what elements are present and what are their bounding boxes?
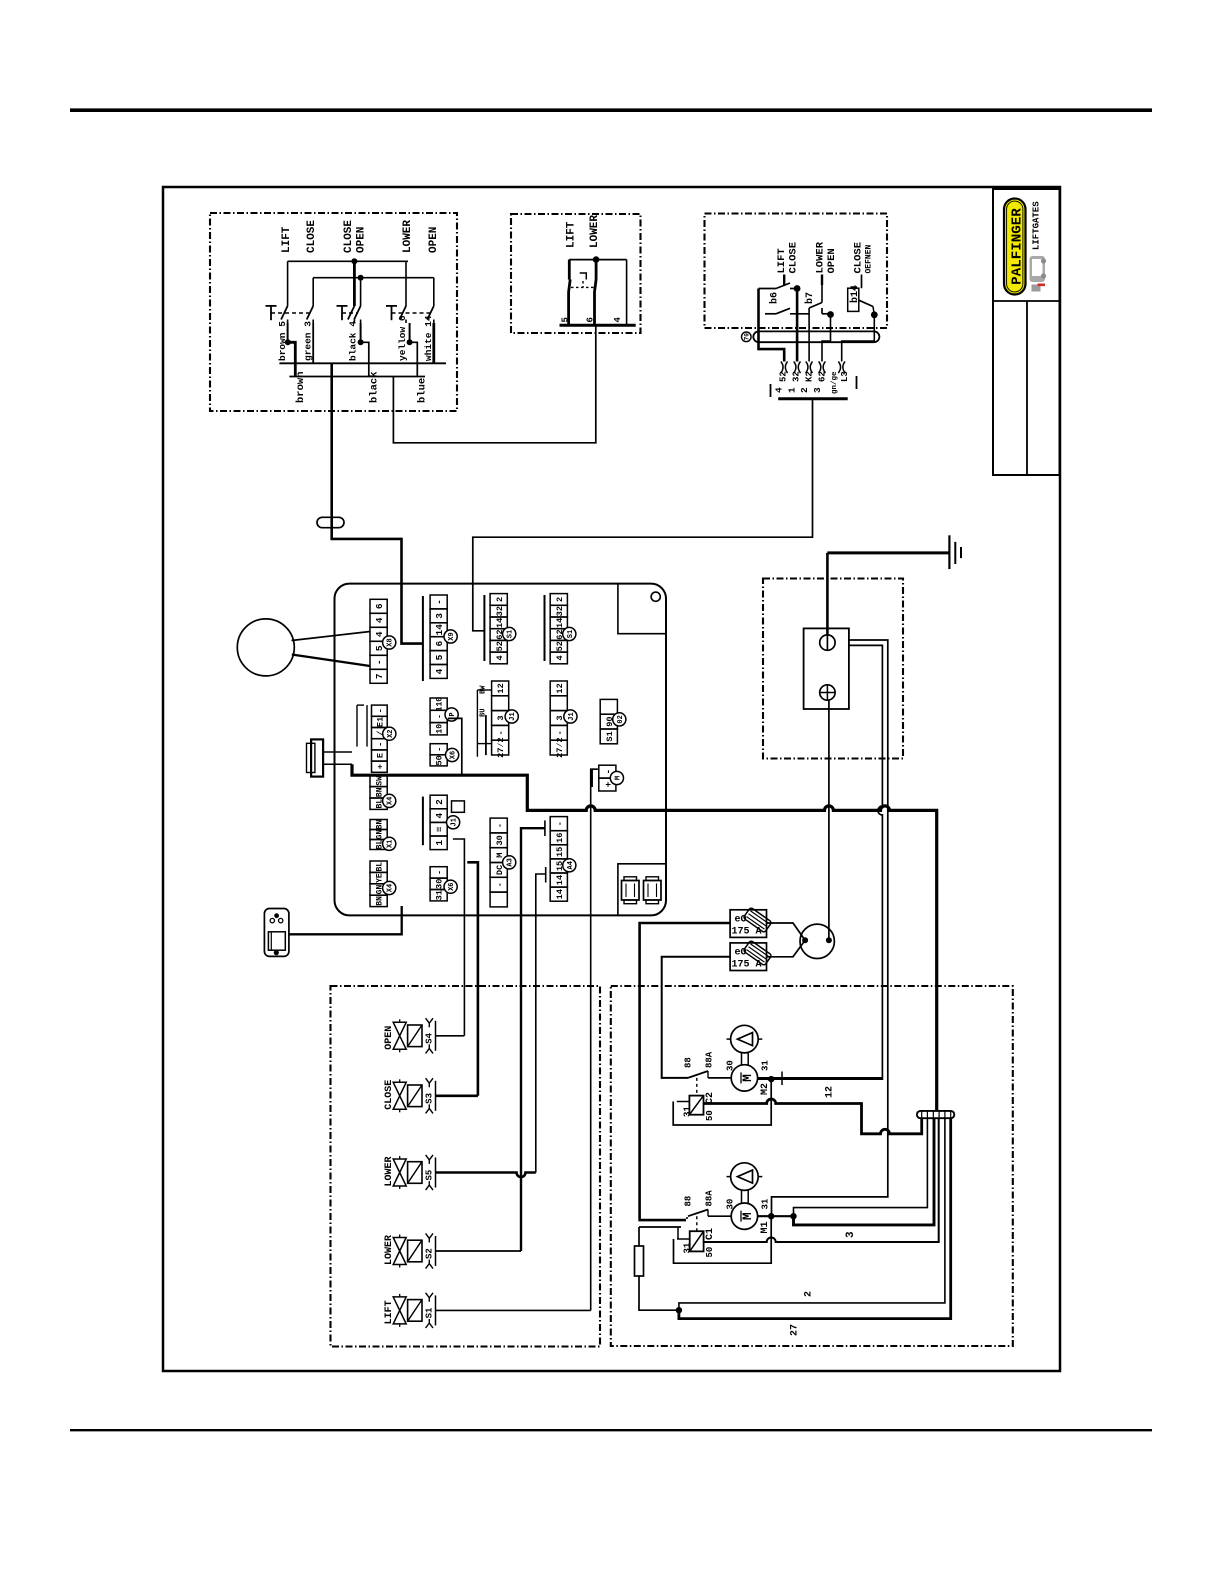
svg-text:1: 1 (786, 387, 797, 393)
wire 2 (679, 1118, 945, 1310)
bracket at block M (591, 768, 593, 787)
enclosure: pump unit (dash-dot box) (611, 986, 1013, 1346)
wire: S5 to controller (436, 1173, 536, 1178)
svg-text:1: 1 (434, 840, 445, 846)
page bottom rule (70, 1429, 1152, 1431)
svg-text:X8: X8 (387, 638, 395, 646)
svg-text:14: 14 (555, 889, 565, 899)
svg-text:OPEN: OPEN (356, 227, 368, 253)
svg-text:M: M (740, 1074, 755, 1082)
svg-text:32: 32 (792, 371, 802, 382)
svg-text:X4: X4 (387, 884, 395, 892)
node: bottom distribution (676, 1307, 682, 1313)
solenoid valve S1 (LIFT) (384, 1293, 435, 1328)
svg-text:30: 30 (435, 879, 445, 889)
wire: fuse F1 to stud (767, 923, 806, 940)
switch b6 upper contact (759, 288, 777, 290)
enclosure: hand control pendant (dash-dot box) (210, 213, 457, 411)
node: b14 junction (871, 311, 878, 318)
switch b6 stub (783, 275, 785, 286)
wire: contact tails to lower bus (287, 323, 289, 342)
terminal block S1b (4 52 62 14 32 2) (550, 594, 567, 606)
switch 88 contact (M2) (688, 1071, 708, 1078)
aux box at J11 (452, 801, 465, 812)
inline fuse on feed (635, 1246, 644, 1276)
svg-text:30: 30 (726, 1060, 736, 1071)
wire: S2 to controller (436, 1250, 522, 1252)
svg-text:-: - (555, 730, 565, 735)
enclosure: cab switch panel (dash-dot box) (705, 214, 888, 329)
chassis ground symbol (948, 535, 950, 569)
controller board corner notch top-right (618, 584, 666, 634)
svg-text:6: 6 (374, 603, 385, 609)
svg-text:2: 2 (804, 1291, 815, 1297)
svg-text:LIFT: LIFT (776, 248, 788, 273)
svg-text:30: 30 (726, 1199, 736, 1210)
wire: cab panel output to controller (473, 399, 813, 584)
wire: S2 riser (521, 828, 545, 1251)
svg-text:110: 110 (436, 697, 445, 712)
switch b14 blade (861, 275, 863, 289)
fan icon (274, 913, 279, 918)
svg-text:15: 15 (555, 847, 565, 857)
connector bar (cab harness) (753, 331, 879, 342)
svg-text:31: 31 (682, 1242, 692, 1253)
terminal block P (110-10) (430, 698, 447, 710)
svg-text:X6: X6 (450, 751, 458, 759)
node: pendant bus junction (351, 258, 357, 264)
svg-text:black: black (368, 371, 380, 403)
svg-text:BL: BL (376, 862, 385, 872)
terminal block X8 (7-5446) with buzzer wires (370, 599, 387, 613)
solenoid valve S3 (CLOSE) (384, 1078, 435, 1113)
fan unit body (264, 909, 289, 957)
wire: S3 riser (467, 862, 478, 1096)
svg-text:5: 5 (561, 317, 571, 322)
svg-text:4: 4 (374, 617, 385, 623)
node: pendant2 junction (593, 256, 600, 263)
terminal block A4 (14-15-16-) (550, 817, 567, 831)
starter junction stud (800, 924, 834, 958)
svg-text:12: 12 (555, 683, 565, 693)
node: pendant bus2 junction (358, 275, 364, 281)
svg-text:GN: GN (376, 830, 385, 840)
solenoid valve S4 (OPEN) (384, 1018, 435, 1053)
wire: pendant2 base bar (560, 324, 636, 327)
pump P2 and motor M2 (731, 1025, 759, 1053)
svg-text:52: 52 (495, 641, 505, 651)
svg-text:-: - (435, 870, 445, 875)
enclosure: battery (dash-dot box) (763, 579, 903, 759)
svg-text:J1: J1 (509, 712, 517, 720)
svg-text:32: 32 (495, 606, 505, 616)
svg-text:10: 10 (436, 724, 445, 734)
battery minus terminal (820, 635, 835, 650)
svg-text:2: 2 (434, 799, 445, 805)
bus and ticks at J1a (485, 715, 487, 755)
svg-text:14: 14 (555, 875, 565, 885)
wire: fuse F1 riser lower stub (639, 1226, 681, 1228)
svg-text:4: 4 (495, 655, 505, 660)
terminal block J11 (1=42) (430, 795, 447, 809)
wire: S4 to controller (436, 1035, 465, 1037)
wire: fuse F2 to stud (767, 940, 806, 957)
wire: pendant main feed to controller (332, 363, 402, 583)
svg-text:12: 12 (825, 1086, 836, 1098)
svg-text:BN: BN (376, 820, 385, 830)
logo PALFINGER yellow badge (1004, 199, 1026, 295)
fuse F2 175A (730, 943, 766, 971)
terminal block X6b (-3031) (430, 867, 447, 878)
switch b7 stub (821, 275, 823, 286)
terminal block X41 (wire colours) (370, 861, 387, 872)
svg-text:CLOSE: CLOSE (787, 242, 799, 274)
svg-text:88: 88 (684, 1196, 694, 1207)
svg-text:b7: b7 (804, 292, 816, 304)
svg-text:3: 3 (812, 387, 823, 393)
board power connector blocks (622, 881, 640, 901)
wire: S5 riser (536, 874, 546, 1173)
svg-text:-: - (436, 714, 445, 719)
svg-text:CLOSE: CLOSE (852, 242, 864, 274)
svg-text:BN: BN (376, 896, 385, 906)
wire: main ground bus on board (thick) (352, 764, 937, 1111)
node: b6 junction (794, 285, 801, 292)
nodes: M1 terminal 31 junctions (758, 1215, 794, 1217)
solenoid valve S5 (LOWER) (384, 1155, 435, 1190)
wire: C2 coil ground loop (673, 1079, 771, 1125)
svg-text:S2: S2 (425, 1248, 435, 1259)
svg-text:-: - (555, 821, 565, 826)
svg-text:M: M (495, 853, 505, 858)
svg-text:M2: M2 (760, 1083, 771, 1095)
wire: pendant top bus (288, 260, 408, 262)
terminal block X4 (wire colours) (370, 775, 387, 786)
svg-text:white 14: white 14 (423, 315, 434, 361)
svg-text:S1: S1 (507, 630, 515, 638)
svg-text:CLOSE: CLOSE (306, 220, 318, 253)
svg-text:70: 70 (744, 333, 751, 341)
svg-text:50: 50 (705, 1247, 715, 1258)
wire: pendant lower bus (279, 362, 446, 364)
switch actuator T-bar 3 (386, 305, 397, 307)
svg-text:-: - (374, 659, 385, 665)
svg-text:5: 5 (434, 654, 445, 660)
wire 3: C1-50 to harness (704, 1118, 939, 1242)
svg-text:PALFINGER: PALFINGER (1009, 208, 1025, 285)
fan grille (268, 932, 285, 950)
battery body (804, 628, 849, 709)
node: M2 terminal 31 (758, 1077, 883, 1079)
drawing frame border (163, 187, 1060, 1371)
svg-text:+: + (375, 764, 385, 769)
svg-text:A4: A4 (567, 861, 575, 869)
switch blades (two-button pendant) (569, 280, 571, 326)
wire: cab panel left feed (759, 289, 785, 362)
bus bar at X9 (422, 596, 424, 681)
svg-text:X9: X9 (448, 632, 456, 640)
bus bar at S1a (483, 595, 485, 661)
svg-text:black 4: black 4 (347, 321, 358, 361)
svg-text:02: 02 (617, 715, 625, 723)
wire: b7 junction to pin 62 (822, 315, 831, 362)
wire: S1 riser (591, 769, 597, 1310)
contactor C2 coil (689, 1096, 703, 1115)
switch contact blades (pendant) (281, 306, 288, 320)
svg-text:LIFT: LIFT (281, 226, 293, 253)
svg-text:gn/ge: gn/ge (831, 371, 839, 394)
switch actuator T-bar 1 (266, 305, 277, 307)
svg-text:M1: M1 (760, 1221, 771, 1233)
bus bar at J11 (422, 797, 424, 846)
svg-text:S1: S1 (567, 630, 575, 638)
wire: K2 pin rise (808, 308, 810, 362)
svg-text:S1: S1 (425, 1307, 435, 1318)
wire: buzzer to controller block (292, 632, 371, 641)
wire: block P to ground bus tap (448, 718, 462, 775)
wire: connector X1 to controller (323, 751, 352, 753)
buzzer (237, 619, 294, 676)
svg-text:LIFT: LIFT (565, 221, 577, 248)
svg-text:S5: S5 (425, 1170, 435, 1181)
svg-text:X4: X4 (387, 797, 395, 805)
bracket at X2 (356, 705, 358, 747)
svg-text:4: 4 (434, 812, 445, 818)
svg-text:3: 3 (845, 1231, 857, 1238)
battery plus terminal (820, 685, 835, 700)
svg-text:50: 50 (435, 755, 445, 765)
svg-text:32: 32 (555, 606, 565, 616)
harness bundle connector (917, 1111, 954, 1118)
svg-text:-: - (496, 730, 506, 735)
node: b7 junction (827, 311, 834, 318)
svg-text:14: 14 (555, 618, 565, 628)
svg-text:14: 14 (495, 618, 505, 628)
title block divider lines (993, 300, 1060, 302)
svg-text:OPEN: OPEN (826, 248, 838, 273)
svg-text:OEFNEN: OEFNEN (864, 244, 873, 273)
contactor C2 link (dashed) (696, 1078, 698, 1096)
enclosure: two-button pendant (dash-dot box) (511, 214, 641, 333)
svg-text:4: 4 (374, 631, 385, 637)
svg-text:-: - (495, 823, 505, 828)
svg-text:-: - (434, 599, 445, 605)
tick marks beside pins (770, 384, 772, 397)
svg-text:YE: YE (376, 873, 385, 883)
switch actuator T-bar 2 (337, 305, 348, 307)
wire: fuse F2 feed riser (662, 957, 730, 1078)
switch b6/b7 lower rail (765, 313, 776, 315)
solenoid valve S2 (LOWER) (384, 1233, 435, 1268)
connector X1 (plug) (311, 739, 323, 776)
wire: switch drops from buses (287, 261, 289, 306)
svg-text:31: 31 (761, 1060, 771, 1071)
svg-text:S1: S1 (605, 731, 615, 741)
wire: S4 riser (453, 839, 465, 1036)
svg-text:16: 16 (555, 833, 565, 843)
terminal block M (+-) (599, 765, 616, 778)
svg-text:12: 12 (496, 683, 506, 693)
svg-text:b6: b6 (769, 292, 781, 304)
svg-text:S3: S3 (425, 1093, 435, 1104)
svg-text:LIFTGATES: LIFTGATES (1032, 201, 1042, 250)
svg-text:31: 31 (761, 1198, 771, 1209)
terminal block X14 (wire colours) (370, 820, 387, 830)
svg-text:7: 7 (374, 673, 385, 679)
wire: M1-31 to harness pin (thin) (794, 1118, 928, 1216)
wire 12: C2-50 to harness (704, 1099, 922, 1134)
wire: fuse F1 feed riser (640, 923, 731, 1220)
fan terminal dot (274, 950, 279, 955)
svg-text:6: 6 (434, 641, 445, 647)
svg-text:S4: S4 (425, 1032, 435, 1043)
svg-text:LOWER: LOWER (814, 241, 826, 273)
svg-text:LOWER: LOWER (589, 215, 601, 248)
terminal block X02 (S1 90) (600, 699, 617, 714)
svg-text:M: M (740, 1212, 755, 1220)
svg-text:OPEN: OPEN (384, 1026, 395, 1050)
svg-text:52: 52 (779, 371, 789, 382)
svg-text:blue: blue (416, 378, 428, 403)
svg-text:-: - (495, 882, 505, 887)
svg-text:brown: brown (295, 371, 307, 403)
contactor C1 link (dashed) (696, 1216, 698, 1231)
svg-text:6: 6 (586, 317, 596, 322)
svg-text:30: 30 (495, 835, 505, 845)
wire 27 (679, 1118, 951, 1318)
svg-text:4: 4 (555, 655, 565, 660)
switch detent symbol (580, 273, 587, 280)
svg-text:E: E (375, 753, 385, 758)
svg-text:4: 4 (434, 668, 445, 674)
svg-text:P: P (449, 712, 457, 716)
wire: battery minus to chassis ground (826, 553, 829, 635)
svg-text:J1: J1 (568, 712, 576, 720)
wire: b14 junction to pin L3 (842, 315, 875, 362)
controller board corner notch bottom-right (618, 864, 666, 916)
wire: pendant feed tap to X9 bus (402, 584, 423, 644)
wire: pendant2 contact drops (568, 260, 571, 280)
terminal block X9 (45614 3-) (430, 595, 447, 609)
terminal block X6a (-50) (430, 744, 447, 755)
svg-text:OPEN: OPEN (428, 227, 440, 253)
wire: battery plus to starter junction (828, 700, 830, 940)
svg-text:-: - (435, 747, 445, 752)
svg-text:LOWER: LOWER (402, 220, 414, 253)
wire: pendant cable bus (289, 376, 425, 378)
wire: two-button pendant bus (569, 259, 626, 261)
wire: battery feed upper (772, 640, 888, 1216)
svg-text:88A: 88A (705, 1190, 715, 1207)
svg-text:2: 2 (495, 597, 505, 602)
wire: C1 coil ground loop (674, 1216, 772, 1263)
svg-text:50: 50 (705, 1110, 715, 1121)
switch b14 outline (848, 288, 859, 311)
terminal block J1b (2712-3 12) (550, 681, 567, 696)
wire: battery feed lower (758, 645, 883, 1079)
enclosure: valve bank (dash-dot box) (331, 986, 601, 1347)
svg-text:LIFT: LIFT (384, 1300, 395, 1324)
wire: S3 to controller (436, 1095, 478, 1098)
svg-text:J1: J1 (451, 818, 459, 826)
wire: pendant2 output to pendant1 (393, 325, 595, 443)
svg-text:-: - (375, 708, 385, 713)
svg-text:3: 3 (434, 613, 445, 619)
connector pin hooks (781, 362, 783, 374)
wire: fan to controller (289, 906, 402, 934)
controller board outline (335, 584, 667, 916)
svg-text:31: 31 (435, 890, 445, 900)
svg-text:yellow 6: yellow 6 (397, 315, 408, 361)
svg-text:-: - (375, 742, 385, 747)
svg-text:C1: C1 (705, 1228, 716, 1240)
wire: cab feed tap to S1a bus (473, 584, 485, 631)
page top rule (70, 108, 1152, 112)
tick C1 terminal 31 (677, 1238, 690, 1240)
svg-text:88A: 88A (705, 1051, 715, 1068)
terminal block J1a (2712-3 12) (492, 681, 509, 696)
svg-text:4: 4 (774, 387, 785, 393)
svg-text:52: 52 (555, 641, 565, 651)
svg-text:27⁄2: 27⁄2 (555, 737, 565, 758)
svg-text:X2: X2 (387, 729, 395, 737)
svg-text:CLOSE: CLOSE (343, 220, 355, 253)
svg-text:BW: BW (479, 685, 487, 694)
svg-text:X1: X1 (387, 840, 395, 848)
wire: pendant second bus (313, 277, 434, 279)
fuse F1 175A (730, 910, 766, 938)
grommet (cable link) (317, 517, 344, 527)
pump P1 and motor M1 (731, 1163, 759, 1191)
terminal block S1a (4 52 62 14 32 2) (490, 594, 507, 606)
wire: cab panel ground bar (778, 397, 848, 400)
svg-text:2: 2 (555, 597, 565, 602)
svg-text:2: 2 (799, 387, 810, 393)
svg-text:SW: SW (376, 776, 385, 786)
wire: b6 junction to pin 32 (796, 289, 799, 362)
svg-text:27: 27 (790, 1324, 801, 1336)
svg-text:X6: X6 (448, 882, 456, 890)
svg-text:A3: A3 (507, 858, 515, 866)
svg-text:27⁄2: 27⁄2 (496, 737, 506, 758)
svg-text:4: 4 (613, 317, 623, 323)
wire: S1 to controller (436, 1309, 591, 1311)
svg-text:K2: K2 (804, 371, 814, 382)
svg-text:M: M (614, 776, 622, 780)
tick C2 terminal 31 (677, 1101, 690, 1103)
svg-text:14: 14 (434, 624, 445, 636)
svg-text:31: 31 (682, 1106, 692, 1117)
svg-text:BU: BU (479, 709, 487, 717)
terminal block A3 (DC-M30-) (490, 818, 507, 833)
svg-text:L3: L3 (840, 371, 850, 382)
svg-text:62: 62 (817, 371, 827, 382)
switch 88 contact (M1) (686, 1217, 688, 1219)
svg-text:≡: ≡ (434, 826, 445, 832)
svg-text:BN: BN (376, 787, 385, 797)
svg-text:green 3: green 3 (302, 321, 313, 361)
terminal block X2 (+E-/E1-) (372, 705, 388, 716)
logo truck icon (1030, 256, 1047, 292)
svg-text:88: 88 (684, 1057, 694, 1068)
title block outline (993, 189, 1060, 475)
svg-text:E1: E1 (375, 717, 385, 727)
connector circled designator (742, 332, 752, 342)
bus bar at S1b (544, 595, 546, 661)
wire: M1-30 to harness pin (thick) (794, 1118, 935, 1225)
contactor C1 coil (690, 1231, 704, 1251)
